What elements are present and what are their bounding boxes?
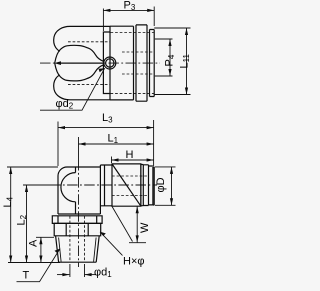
dim W line — [136, 206, 138, 242]
side view stud hex — [54, 223, 100, 235]
shared bottom extension — [8, 262, 60, 264]
svg-text:L3: L3 — [102, 112, 113, 125]
top view hidden lines inner — [122, 52, 154, 74]
side view port centerline — [50, 184, 157, 186]
dim phiD arrows — [170, 167, 173, 205]
dim L11 arrows — [185, 28, 188, 95]
dim H extension — [111, 157, 113, 164]
dim H arrows — [112, 158, 154, 161]
svg-text:P4: P4 — [164, 54, 177, 66]
dim L3 line — [58, 127, 154, 129]
dim L4 arrows — [9, 167, 12, 263]
dim P3 extension right — [153, 7, 155, 27]
dim P4 arrows — [168, 39, 171, 76]
dim P4 extensions — [155, 39, 173, 76]
dim L3 arrows — [58, 126, 154, 129]
side view thread minor lines — [59, 238, 97, 262]
dim L11 extensions — [154, 28, 190, 95]
svg-text:L1: L1 — [108, 132, 119, 145]
svg-text:L11: L11 — [179, 54, 192, 69]
svg-text:L4: L4 — [2, 196, 15, 207]
top view hex lower boundary — [55, 63, 104, 81]
side view bore extensions below — [70, 264, 85, 277]
side view port hex diagonal — [112, 164, 141, 206]
svg-text:W: W — [139, 222, 151, 233]
svg-text:H: H — [126, 149, 134, 161]
dim P3 arrows — [103, 9, 154, 12]
side view stud axis — [78, 137, 80, 160]
top view main cylinder — [110, 25, 154, 101]
dim L2 line — [26, 185, 28, 263]
dim W extension bottom — [129, 242, 146, 244]
dim L2 arrows — [25, 185, 28, 263]
side view dome — [61, 173, 76, 202]
top view hidden lines outer — [111, 33, 155, 94]
dim P4 line — [169, 39, 171, 76]
top view hex upper boundary — [55, 45, 104, 63]
dim phiD line — [171, 167, 173, 205]
dim W diagonal — [112, 206, 133, 241]
svg-text:H×φ: H×φ — [123, 256, 145, 268]
svg-text:P3: P3 — [124, 0, 136, 12]
leader HxPhi arrow — [100, 232, 106, 236]
dim A arrows — [39, 237, 42, 262]
top view centerline — [40, 62, 160, 64]
dim P3 extension left — [102, 9, 104, 32]
circle d2 — [104, 57, 116, 69]
leader phi-d2 — [40, 68, 105, 110]
dim L11 line — [186, 28, 188, 95]
leader phi-d2 arrow — [99, 68, 105, 72]
dim L1 arrows — [79, 142, 154, 145]
top view body lower lobe — [54, 75, 110, 100]
dim L2 extension top — [23, 184, 50, 186]
svg-text:T: T — [23, 269, 30, 281]
side view port hidden lines — [112, 176, 148, 196]
dim phi-d1 left segment — [57, 274, 69, 276]
top view body upper lobe — [54, 26, 110, 51]
dim W arrows — [136, 206, 139, 242]
top view hidden socket lines — [68, 42, 110, 85]
dim phi-d1 arrows — [62, 273, 91, 276]
leader T arrow — [55, 249, 61, 254]
side view thread taper — [56, 236, 100, 262]
side view sleeve — [149, 166, 153, 205]
dim A extension top — [36, 236, 54, 238]
dim L3 extension left — [57, 122, 59, 167]
side view body outline — [58, 165, 100, 214]
leader HxPhi — [100, 232, 123, 256]
side view flange — [52, 216, 102, 224]
svg-text:L2: L2 — [16, 214, 29, 225]
dim P3 line — [103, 9, 154, 11]
leader T underline — [17, 249, 61, 282]
dim L4 extension top — [7, 166, 58, 168]
dim L4 line — [10, 167, 12, 263]
svg-text:φd1: φd1 — [94, 267, 112, 280]
top view hex corner edge line — [57, 62, 104, 64]
dim A line — [40, 237, 42, 262]
side view ring before hex — [100, 165, 112, 206]
top view tip arrowhead — [54, 61, 61, 65]
side view rings after hex — [141, 165, 149, 206]
dim L1 line — [79, 143, 154, 145]
svg-text:φD: φD — [155, 177, 167, 192]
dim phi-d1 right segment — [85, 274, 96, 276]
side view bore hidden verticals — [70, 216, 85, 263]
side view port hex block — [112, 164, 141, 206]
side view end face — [153, 167, 154, 205]
top view sleeve cap left — [103, 32, 110, 94]
svg-text:A: A — [28, 239, 40, 247]
dim H line — [112, 159, 154, 161]
dim L3/L1/H extension right — [153, 120, 155, 166]
dim phiD extensions — [155, 167, 176, 205]
side view dome verticals — [75, 167, 77, 214]
